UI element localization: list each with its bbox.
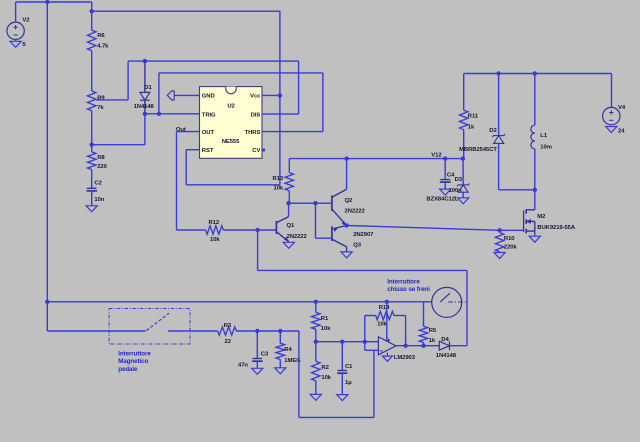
wire to Vcc riser — [92, 10, 280, 12]
resistor R6 — [88, 30, 110, 51]
switch dash contact — [448, 301, 467, 303]
svg-text:D1: D1 — [144, 85, 152, 91]
node R4 top — [278, 329, 282, 333]
svg-text:MBRB2545CT: MBRB2545CT — [459, 147, 497, 153]
wire from top corner down to R6 — [91, 2, 93, 30]
svg-text:2N2907: 2N2907 — [353, 232, 374, 238]
svg-text:LM2903: LM2903 — [394, 355, 416, 361]
wire D2 bottom to drain node — [499, 189, 535, 191]
resistor R8 — [88, 145, 108, 171]
svg-text:R5: R5 — [429, 328, 437, 334]
wire D1 bottom to R8 node — [144, 114, 146, 145]
port flag GND pin — [167, 91, 199, 100]
svg-text:TRIG: TRIG — [202, 113, 216, 119]
svg-text:1k: 1k — [429, 338, 436, 344]
svg-text:RST: RST — [202, 148, 214, 154]
node feedback tap — [363, 340, 367, 344]
wire pedal row — [46, 302, 48, 331]
svg-text:C2: C2 — [94, 180, 102, 186]
svg-text:BUK9219-55A: BUK9219-55A — [537, 225, 576, 231]
wire left rail down — [46, 2, 48, 302]
svg-text:220: 220 — [97, 164, 107, 170]
resistor R13 — [273, 159, 294, 204]
svg-text:V4: V4 — [618, 105, 626, 111]
svg-text:M2: M2 — [537, 214, 546, 220]
node C4 — [443, 156, 447, 160]
svg-text:220k: 220k — [504, 245, 518, 251]
svg-text:10k: 10k — [274, 186, 284, 192]
node R8 top — [90, 143, 94, 147]
svg-text:24: 24 — [618, 128, 625, 134]
switch lever — [440, 293, 450, 302]
svg-text:U2: U2 — [227, 103, 235, 109]
resistor R3 — [218, 323, 237, 345]
wire V12 row — [289, 158, 463, 160]
svg-text:D4: D4 — [441, 337, 449, 343]
svg-text:10k: 10k — [321, 375, 331, 381]
svg-text:22: 22 — [225, 339, 232, 345]
ground below R2 — [310, 394, 321, 400]
svg-text:NE555: NE555 — [222, 139, 240, 145]
svg-text:R3: R3 — [224, 323, 232, 329]
wire Vcc down to RST link — [279, 95, 281, 184]
node junction top — [45, 0, 49, 4]
svg-text:1N4148: 1N4148 — [436, 353, 457, 359]
capacitor C3 — [238, 331, 269, 369]
wire R12 to Q1 base — [223, 229, 276, 231]
svg-text:C1: C1 — [345, 364, 353, 370]
svg-text:chiuso se freni: chiuso se freni — [387, 286, 430, 293]
CV pin stub dot — [262, 149, 265, 152]
svg-text:47n: 47n — [238, 363, 248, 369]
svg-text:L1: L1 — [540, 133, 548, 139]
svg-text:D3: D3 — [455, 177, 463, 183]
inductor L1 — [531, 74, 552, 190]
node D3/R11 — [461, 156, 465, 160]
capacitor C2 — [86, 180, 104, 205]
wire input row — [316, 341, 379, 343]
svg-text:R2: R2 — [321, 365, 329, 371]
svg-text:THRS: THRS — [245, 130, 261, 136]
wire horizontal y61 — [128, 60, 299, 62]
wire output row — [396, 345, 439, 347]
svg-text:1µ: 1µ — [345, 380, 352, 386]
wire OUT pin — [177, 131, 200, 133]
svg-text:7k: 7k — [97, 105, 104, 111]
svg-text:R8: R8 — [97, 155, 105, 161]
brake switch circle — [432, 287, 462, 317]
ground below C3 — [252, 368, 263, 374]
svg-text:10n: 10n — [94, 197, 104, 203]
svg-text:R10: R10 — [504, 236, 515, 242]
wire R9 to node — [91, 111, 93, 145]
node R1 top — [314, 300, 318, 304]
svg-text:OUT: OUT — [202, 130, 215, 136]
node C1 top — [340, 340, 344, 344]
ground below D3 — [458, 198, 469, 204]
wire TRIG row — [145, 113, 200, 115]
wire Vcc pin — [262, 94, 280, 96]
wire R6 to R9 — [91, 51, 93, 91]
switch dashed box pedale — [109, 309, 190, 345]
resistor R9 — [88, 91, 106, 111]
transistor Q2 — [332, 159, 366, 226]
svg-text:pedale: pedale — [118, 366, 138, 373]
svg-text:1N4148: 1N4148 — [134, 104, 155, 110]
resistor R1 — [312, 302, 332, 342]
node Q2 collector top — [344, 156, 348, 160]
ground below C2 — [86, 206, 97, 212]
voltage source V2 — [7, 2, 30, 40]
ground Q3 collector — [341, 252, 352, 258]
resistor R4 — [276, 331, 301, 368]
node opamp V+ rail — [385, 300, 389, 304]
svg-text:GND: GND — [202, 94, 215, 100]
ground below V4 — [606, 127, 625, 135]
wire minus input stub — [364, 342, 366, 351]
node Q1 base — [255, 228, 259, 232]
svg-text:C3: C3 — [261, 352, 269, 358]
node TRIG left — [143, 112, 147, 116]
svg-text:Q3: Q3 — [353, 242, 362, 248]
node C3 top — [255, 329, 259, 333]
resistor R10 — [495, 233, 517, 252]
switch right stub — [168, 330, 218, 332]
svg-text:D2: D2 — [489, 128, 497, 134]
svg-text:Interruttore: Interruttore — [118, 350, 151, 357]
svg-text:10m: 10m — [540, 144, 552, 150]
node R6 top — [90, 9, 94, 13]
wire Q1 base to brake loop — [257, 230, 259, 270]
ground below R10 — [494, 253, 505, 259]
transistor Q3 — [316, 203, 375, 252]
wire top rail — [16, 1, 92, 3]
long rail to brake switch — [47, 301, 432, 303]
wire R8 to C2 — [91, 170, 93, 188]
node L1 top — [533, 71, 537, 75]
svg-text:Q1: Q1 — [287, 223, 296, 229]
wire branch D1 top — [127, 61, 129, 100]
svg-text:2N2222: 2N2222 — [287, 234, 308, 240]
node pair output — [344, 223, 348, 227]
resistor R12 — [206, 220, 224, 243]
resistor R11 — [460, 74, 479, 159]
node feedback right — [403, 344, 407, 348]
svg-text:10k: 10k — [210, 237, 220, 243]
svg-text:R14: R14 — [379, 305, 390, 311]
ground opamp V- — [382, 356, 392, 361]
resistor R5 — [419, 302, 437, 346]
svg-text:4.7k: 4.7k — [97, 44, 109, 50]
ground below R4 — [275, 368, 286, 374]
voltage source V4 — [603, 74, 626, 125]
svg-text:1k: 1k — [468, 125, 475, 131]
svg-text:Vcc: Vcc — [250, 94, 261, 100]
node D1 anode — [143, 59, 147, 63]
svg-text:10k: 10k — [321, 326, 331, 332]
wire top supply rail 24V — [464, 73, 612, 75]
op 555 box U2 — [200, 87, 263, 159]
wire DIS pin — [262, 113, 299, 115]
wire feedback loop — [364, 316, 366, 342]
wire THRS loop riser left — [158, 73, 160, 114]
wire gate sloped — [347, 226, 500, 231]
capacitor C1 — [337, 342, 353, 395]
svg-text:Q2: Q2 — [345, 198, 354, 204]
node TRIG mid — [157, 112, 161, 116]
node R10 top — [497, 228, 501, 232]
node drain — [533, 188, 537, 192]
svg-text:CV: CV — [252, 148, 260, 154]
svg-text:V12: V12 — [431, 152, 442, 158]
svg-text:2N2222: 2N2222 — [345, 208, 366, 214]
node Vcc — [278, 93, 282, 97]
mosfet M2 — [524, 190, 576, 236]
resistor R14 — [376, 305, 394, 328]
wire node row y203 — [289, 202, 332, 204]
node R5 bottom — [421, 344, 425, 348]
node R13 bottom — [286, 201, 290, 205]
diode D4 — [436, 337, 467, 359]
wire bottom feedback path — [298, 331, 300, 417]
svg-text:Interruttore: Interruttore — [387, 278, 420, 285]
ground below V2 — [10, 40, 26, 49]
ground below C4 — [440, 189, 451, 195]
svg-text:R4: R4 — [284, 347, 292, 353]
resistor R2 — [312, 342, 332, 395]
capacitor C4 — [440, 159, 462, 194]
transistor Q1 — [276, 203, 307, 242]
svg-text:Magnetico: Magnetico — [118, 358, 148, 365]
node Q3 base branch — [313, 201, 317, 205]
diode D1 — [134, 61, 155, 114]
svg-text:BZX84C12L: BZX84C12L — [426, 196, 458, 202]
node input row left — [314, 340, 318, 344]
svg-text:R11: R11 — [468, 113, 479, 119]
node rail corner — [45, 300, 49, 304]
ground Q1 emitter — [283, 242, 294, 248]
svg-text:R1: R1 — [321, 316, 329, 322]
wire R3 to corner — [236, 330, 299, 332]
wire V+ supply — [386, 302, 388, 341]
wire RST link — [186, 184, 280, 186]
op-amp U3 LM2903 — [378, 337, 415, 361]
ground below C1 — [337, 395, 348, 401]
zener D3 — [426, 159, 469, 203]
svg-text:R12: R12 — [209, 220, 220, 226]
ground M2 source — [529, 236, 540, 242]
diode D2 schottky — [459, 74, 505, 190]
svg-text:R6: R6 — [97, 33, 105, 39]
wire THRS pin — [262, 131, 323, 133]
switch blade — [146, 313, 169, 330]
svg-text:R13: R13 — [273, 176, 284, 182]
svg-text:DIS: DIS — [251, 113, 261, 119]
node D2 top — [496, 71, 500, 75]
svg-text:V2: V2 — [22, 17, 30, 23]
